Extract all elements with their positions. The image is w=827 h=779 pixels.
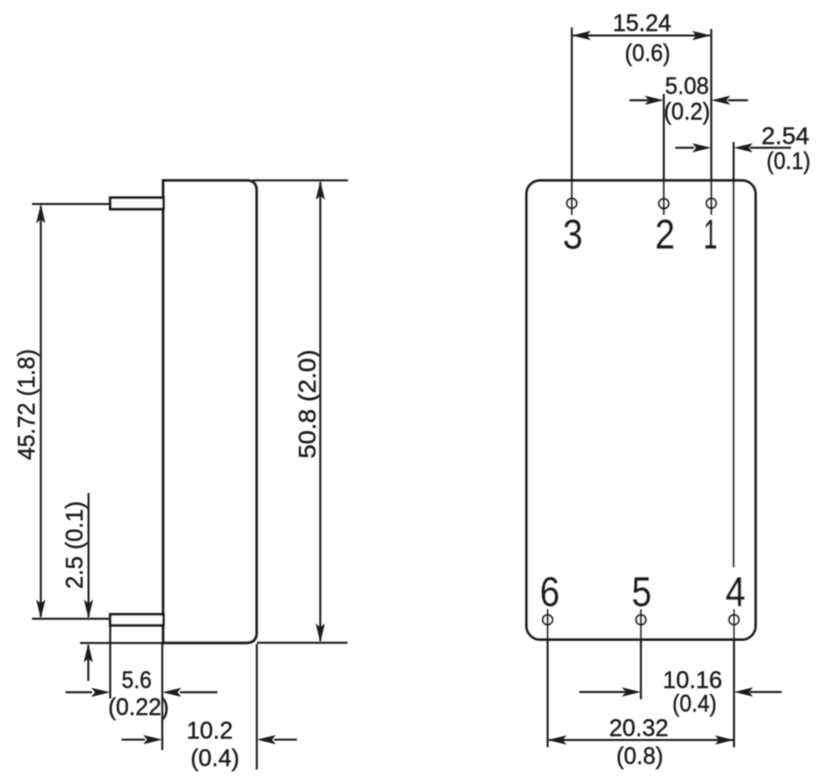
svg-text:(0.4): (0.4)	[672, 691, 717, 718]
svg-text:(0.6): (0.6)	[625, 40, 671, 67]
pin 4 upper extension line	[733, 142, 735, 568]
extension line case bottom left	[80, 642, 163, 644]
svg-text:2.5 (0.1): 2.5 (0.1)	[62, 501, 89, 589]
dimension 5.6 right arrow	[162, 688, 217, 697]
svg-text:(0.4): (0.4)	[191, 745, 240, 772]
dimension 5.08 right arrow	[711, 96, 748, 105]
bottom pin (side view)	[110, 614, 164, 625]
pin 5 extension line	[640, 609, 642, 699]
top pin (side view)	[110, 198, 164, 209]
dimension line 15.24	[572, 31, 712, 40]
dimension 2.5 upper arrow	[84, 493, 93, 619]
dimension 5.08 left arrow	[630, 96, 664, 105]
pin 3 extension line	[571, 28, 573, 216]
extension line case top right	[252, 179, 348, 181]
dimension 10.2 left arrow	[122, 735, 163, 744]
svg-text:5: 5	[632, 568, 652, 615]
dimension 5.6 left arrow	[66, 688, 111, 697]
extension line case bottom right	[257, 642, 348, 644]
extension line below case right edge	[256, 644, 258, 770]
svg-text:(0.2): (0.2)	[664, 99, 710, 126]
dimension line 50.8	[316, 181, 325, 643]
pin 6 extension line	[547, 609, 549, 747]
svg-text:4: 4	[726, 568, 746, 615]
pin 2 extension line	[663, 94, 665, 215]
svg-text:5.08: 5.08	[665, 73, 709, 100]
dimension line 20.32	[548, 735, 734, 744]
svg-text:6: 6	[540, 568, 560, 615]
extension line below bottom pin left edge	[109, 625, 111, 698]
pin 2 hole	[659, 199, 669, 209]
pin 4 hole	[729, 615, 739, 625]
svg-text:(0.1): (0.1)	[767, 148, 811, 175]
dimension 2.54 left arrow	[675, 143, 711, 152]
svg-text:45.72 (1.8): 45.72 (1.8)	[14, 349, 41, 460]
svg-text:10.2: 10.2	[186, 718, 233, 745]
dimension 2.5 lower arrow	[84, 643, 93, 681]
pin 1 extension line	[710, 29, 712, 215]
extension line top pin center	[32, 203, 110, 205]
pin 5 hole	[636, 615, 646, 625]
dimension 2.54 right arrow	[734, 143, 791, 152]
extension line bottom pin center	[32, 618, 110, 620]
svg-text:1: 1	[704, 211, 718, 258]
svg-text:(0.8): (0.8)	[616, 743, 663, 770]
pin 3 hole	[567, 198, 577, 208]
svg-text:2.54: 2.54	[761, 123, 809, 150]
pin 1 hole	[706, 198, 716, 208]
pin 6 hole	[543, 615, 553, 625]
svg-text:3: 3	[563, 211, 583, 258]
pin 4 lower extension line	[733, 609, 735, 747]
svg-text:50.8 (2.0): 50.8 (2.0)	[295, 350, 322, 459]
svg-text:20.32: 20.32	[609, 715, 668, 742]
svg-text:15.24: 15.24	[613, 10, 672, 37]
dimension line 45.72	[36, 204, 45, 618]
case body (side view)	[163, 181, 256, 643]
dimension 10.16 right arrow	[734, 687, 782, 696]
extension line below case left edge	[161, 644, 163, 750]
svg-text:(0.22): (0.22)	[108, 694, 169, 721]
dimension 10.16 left arrow	[579, 687, 641, 696]
package outline (bottom view)	[527, 181, 756, 640]
svg-text:2: 2	[655, 211, 675, 258]
svg-text:5.6: 5.6	[122, 667, 152, 694]
dimension 10.2 right arrow	[257, 735, 297, 744]
